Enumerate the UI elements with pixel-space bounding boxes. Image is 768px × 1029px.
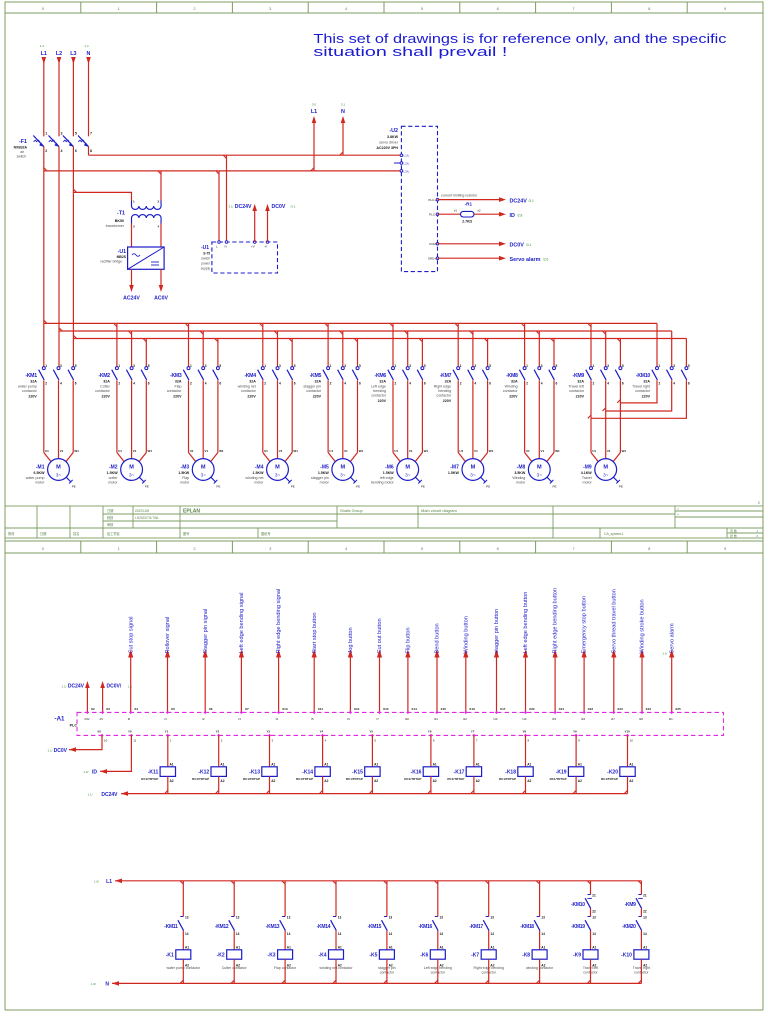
svg-text:PE: PE [216,485,220,489]
page 1 right border [762,13,764,541]
svg-text:U1: U1 [45,449,49,453]
svg-text:DC24V: DC24V [101,792,118,798]
svg-text:32A: 32A [249,380,256,384]
svg-text:14: 14 [236,932,240,936]
motor M8 [528,459,550,481]
bus bar L2 [59,330,672,332]
svg-text:1: 1 [659,364,661,368]
svg-text:contactor: contactor [95,389,111,393]
svg-text:-K9: -K9 [573,953,581,959]
svg-text:3: 3 [673,364,675,368]
svg-text:1: 1 [330,364,332,368]
svg-text:3.8KW: 3.8KW [387,135,399,139]
svg-text:张 数: 张 数 [730,533,737,538]
svg-text:COM: COM [429,242,437,246]
svg-text:W1: W1 [293,449,298,453]
svg-text:3~: 3~ [56,473,62,478]
wire L1 vertical to bus [43,147,45,367]
svg-text:PLC: PLC [70,724,78,728]
svg-text:V1: V1 [541,449,545,453]
svg-text:-KM11: -KM11 [164,924,178,930]
svg-text:-R1: -R1 [465,201,473,206]
svg-text:10: 10 [104,739,108,743]
svg-text:1.5KW: 1.5KW [318,471,330,475]
svg-text:rectifier bridge: rectifier bridge [101,260,123,264]
svg-text:6: 6 [219,382,221,386]
svg-text:Rollover signal: Rollover signal [165,617,171,654]
svg-text:-K20: -K20 [607,769,618,775]
servo driver left pins [400,154,403,157]
svg-text:-K12: -K12 [198,769,209,775]
svg-text:1: 1 [118,364,120,368]
wire transformer secondary to rectifier [131,224,133,248]
wire L1 horizontal to servo driver [44,170,402,172]
branch KM5 coil circuit [386,881,388,917]
svg-text:1.1/: 1.1/ [87,792,92,796]
svg-text:X12: X12 [354,707,360,711]
PLC input Stagger pin signal [204,657,206,712]
page 2 bottom border [5,1009,763,1011]
svg-text:加工项目: 加工项目 [107,531,120,536]
svg-text:MB2S: MB2S [117,255,127,259]
svg-text:-A1: -A1 [55,716,66,723]
wire PSU L drop [218,171,220,242]
svg-text:RC1/TRTGP: RC1/TRTGP [141,777,158,781]
bus bar L3 [73,338,686,340]
wire relay K11 to DC24V rail [167,776,169,793]
svg-text:8: 8 [90,149,92,153]
svg-text:water pump: water pump [18,385,37,389]
svg-text:3~: 3~ [275,473,281,478]
svg-text:Bend button: Bend button [435,623,441,653]
svg-text:220V: 220V [313,394,322,398]
svg-text:-K10: -K10 [621,953,632,959]
svg-text:3~: 3~ [405,473,411,478]
svg-text:I10: I10 [405,717,409,721]
svg-text:X11: X11 [318,707,324,711]
svg-text:Shafa Group: Shafa Group [340,508,363,513]
svg-text:修改: 修改 [8,531,15,536]
svg-text:0V: 0V [100,717,104,721]
svg-text:X25: X25 [675,707,681,711]
svg-text:I15: I15 [552,717,556,721]
svg-text:4: 4 [607,382,609,386]
wire relay K19 to DC24V rail [575,776,577,793]
wire relay K18 to DC24V rail [525,776,527,793]
PLC input Right edge bending signal [278,657,280,712]
PLC input Emergency stop button [583,657,585,712]
svg-text:contactor: contactor [436,394,452,398]
svg-text:1.6/: 1.6/ [83,770,88,774]
svg-text:W1: W1 [74,449,79,453]
svg-text:-K2: -K2 [217,953,225,959]
svg-text:Y6: Y6 [428,730,432,734]
svg-text:motor: motor [108,480,118,484]
svg-text:PE: PE [619,485,623,489]
svg-text:A1: A1 [389,946,393,950]
wire bus drop KM4 pole 1 [262,323,264,366]
svg-text:220V: 220V [247,394,256,398]
svg-text:姓名: 姓名 [73,531,79,536]
svg-text:W1: W1 [424,449,429,453]
svg-text:14: 14 [287,932,291,936]
motor M3 [192,459,214,481]
svg-text:32A: 32A [175,380,182,384]
svg-text:I1: I1 [165,717,168,721]
svg-text:A1: A1 [476,763,480,767]
wire coil KM3 to N rail [284,959,286,983]
svg-text:-K6: -K6 [420,953,428,959]
svg-text:3: 3 [205,364,207,368]
svg-text:Flip button: Flip button [406,627,412,653]
svg-text:L1: L1 [41,51,47,57]
svg-text:6: 6 [688,382,690,386]
wire bus drop KM8 pole 1 [524,323,526,366]
wire relay K17 to DC24V rail [473,776,475,793]
motor M1 [48,459,70,481]
svg-text:4: 4 [673,382,675,386]
svg-text:5: 5 [294,364,296,368]
svg-text:/3.1: /3.1 [526,243,532,247]
svg-text:-M9: -M9 [583,465,592,471]
svg-text:13: 13 [541,916,545,920]
svg-text:I12: I12 [463,717,467,721]
svg-text:10: 10 [630,739,634,743]
svg-text:13: 13 [440,916,444,920]
svg-text:1: 1 [395,364,397,368]
svg-text:3: 3 [133,364,135,368]
svg-text:L1: L1 [311,109,317,115]
svg-text:3: 3 [409,364,411,368]
page 2 left border [4,553,6,1010]
svg-text:6: 6 [148,382,150,386]
svg-text:X7: X7 [245,707,249,711]
svg-text:-K14: -K14 [302,769,313,775]
motor M4 [267,459,289,481]
svg-text:13: 13 [389,916,393,920]
svg-text:5: 5 [622,364,624,368]
svg-text:-K15: -K15 [352,769,363,775]
svg-text:13: 13 [287,916,291,920]
svg-text:A1: A1 [185,946,189,950]
PLC input Start stop button [313,657,315,712]
page 1 frame top column strip [5,2,763,13]
svg-text:L1: L1 [106,879,112,885]
wire relay K13 to DC24V rail [269,776,271,793]
wire relay K14 to DC24V rail [322,776,324,793]
svg-text:servo driver: servo driver [379,141,399,145]
svg-text:motor: motor [320,480,330,484]
svg-text:contactor: contactor [167,389,183,393]
svg-text:motor: motor [254,480,264,484]
wire coil KM2 to N rail [233,959,235,983]
svg-text:-K16: -K16 [411,769,422,775]
svg-text:-K1: -K1 [166,953,174,959]
svg-text:RC1/TRTGP: RC1/TRTGP [550,777,567,781]
svg-text:-KM14: -KM14 [317,924,331,930]
svg-text:22: 22 [592,910,596,914]
svg-text:W1: W1 [219,449,224,453]
svg-text:-T1: -T1 [117,211,125,217]
svg-text:3~: 3~ [470,473,476,478]
svg-text:X14: X14 [411,707,417,711]
svg-text:N: N [105,982,109,988]
svg-text:M: M [405,464,410,470]
svg-text:V1: V1 [204,449,208,453]
relay K18 [524,734,527,737]
N rail [112,982,641,984]
branch KM2 coil circuit [233,881,235,917]
svg-text:-M3: -M3 [181,465,190,471]
svg-text:U1: U1 [118,449,122,453]
svg-text:3: 3 [474,364,476,368]
svg-text:1.4: 1.4 [84,44,89,48]
PLC output ID [130,734,133,737]
svg-text:4: 4 [205,382,207,386]
svg-text:Y10: Y10 [625,730,631,734]
svg-text:U1: U1 [526,449,530,453]
svg-text:PE: PE [421,485,425,489]
svg-text:-KM20: -KM20 [622,924,636,930]
svg-text:2022/12/6: 2022/12/6 [135,509,149,513]
svg-text:32A: 32A [577,380,584,384]
svg-text:N: N [87,51,91,57]
relay K11 [166,734,169,737]
svg-text:U1: U1 [329,449,333,453]
wire bus drop KM7 pole 2 [472,331,474,367]
svg-text:X5: X5 [171,707,175,711]
svg-text:-K7: -K7 [471,953,479,959]
wire bus drop KM5 pole 3 [357,339,359,367]
wire relay K12 to DC24V rail [218,776,220,793]
svg-text:-K13: -K13 [249,769,260,775]
svg-text:X4: X4 [134,707,138,711]
PLC input Jog button [349,657,351,712]
svg-text:-KM13: -KM13 [266,924,280,930]
svg-text:5: 5 [424,364,426,368]
svg-text:I13: I13 [494,717,498,721]
svg-text:Y3: Y3 [267,730,271,734]
svg-text:X17: X17 [500,707,506,711]
wire bus drop KM9 pole 2 [605,331,607,367]
svg-text:water pump: water pump [26,476,45,480]
svg-text:3: 3 [61,132,63,136]
svg-text:Emergency stop button: Emergency stop button [582,596,588,654]
svg-text:-KM10: -KM10 [571,902,585,908]
wire bus drop KM4 pole 3 [291,339,293,367]
svg-text:X15: X15 [441,707,447,711]
svg-text:M: M [56,464,61,470]
wire bus drop KM9 pole 1 [590,323,592,366]
wire coil KM4 to N rail [335,959,337,983]
svg-text:-M7: -M7 [450,465,459,471]
svg-text:A2: A2 [271,779,275,783]
svg-text:4.1KW: 4.1KW [581,471,593,475]
branch KM8 coil circuit [539,881,541,917]
DC24V rail [121,793,628,795]
svg-text:Jog button: Jog button [348,627,354,653]
wire DC0V riser [267,206,269,242]
svg-text:-KM5: -KM5 [310,373,322,379]
svg-text:4: 4 [61,149,63,153]
svg-text:32A: 32A [30,380,37,384]
svg-text:contactor: contactor [306,389,322,393]
svg-text:2: 2 [593,382,595,386]
svg-text:14: 14 [185,932,189,936]
svg-text:M: M [201,464,206,470]
svg-text:1: 1 [190,364,192,368]
svg-text:V1: V1 [60,449,64,453]
svg-text:W1: W1 [489,449,494,453]
wire L3 vertical to bus [72,147,74,367]
svg-text:motor: motor [583,480,593,484]
svg-text:bending motor: bending motor [371,480,395,484]
svg-text:32A: 32A [103,380,110,384]
svg-text:situation shall prevail !: situation shall prevail ! [313,44,507,59]
svg-text:页 数: 页 数 [730,528,737,533]
svg-text:1: 1 [45,132,47,136]
svg-text:I20: I20 [639,717,643,721]
svg-text:32A: 32A [315,380,322,384]
svg-text:220V: 220V [101,394,110,398]
svg-text:-M6: -M6 [385,465,394,471]
wire PSU N drop [226,155,228,242]
svg-text:3~: 3~ [603,473,609,478]
svg-text:U1: U1 [264,449,268,453]
wire KM10 crossover to motor M9 [620,380,657,403]
svg-text:U1: U1 [394,449,398,453]
svg-text:Start stop button: Start stop button [312,612,318,653]
svg-text:2: 2 [45,149,47,153]
svg-text:contactor: contactor [371,394,387,398]
svg-text:1.4: 1.4 [40,44,45,48]
page 1 bottom column strip [5,541,763,553]
svg-text:Left edge: Left edge [371,385,386,389]
wire bus drop KM6 pole 1 [392,323,394,366]
svg-text:N: N [341,109,345,115]
svg-text:L3: L3 [70,51,76,57]
svg-text:-K18: -K18 [505,769,516,775]
branch KM9 coil circuit [590,881,592,895]
svg-text:V1: V1 [409,449,413,453]
wire DC24V signal [438,199,501,201]
svg-text:PE: PE [486,485,490,489]
wire coil KM6 to N rail [437,959,439,983]
svg-text:Flap: Flap [182,476,189,480]
svg-text:current limiting resistor: current limiting resistor [441,193,478,197]
svg-text:3.0: 3.0 [312,103,317,107]
svg-text:1.5KW: 1.5KW [448,471,460,475]
svg-text:N: N [225,245,227,249]
svg-text:220V: 220V [173,394,182,398]
svg-text:motor: motor [35,480,45,484]
wire bus drop KM10 pole 3 [685,339,687,367]
svg-text:-KM12: -KM12 [215,924,229,930]
svg-text:6: 6 [294,382,296,386]
svg-text:RC1/TRTGP: RC1/TRTGP [447,777,464,781]
svg-text:日期: 日期 [107,508,113,513]
svg-text:6: 6 [75,382,77,386]
page 2 right border [762,553,764,1010]
svg-text:I6: I6 [347,717,350,721]
svg-text:contactor: contactor [241,389,257,393]
svg-text:-M4: -M4 [255,465,264,471]
svg-text:3~: 3~ [537,473,543,478]
svg-text:1.0/: 1.0/ [91,982,96,986]
svg-text:-K3: -K3 [268,953,276,959]
svg-text:W1: W1 [622,449,627,453]
svg-text:Y8: Y8 [523,730,527,734]
svg-text:Cut out button: Cut out button [377,618,383,653]
svg-text:L2: L2 [56,51,62,57]
branch KM7 coil circuit [488,881,490,917]
svg-text:Winding button: Winding button [463,616,469,653]
svg-text:contactor: contactor [635,389,651,393]
svg-text:M: M [129,464,134,470]
svg-text:X16: X16 [469,707,475,711]
svg-text:motor: motor [180,480,190,484]
svg-text:A2: A2 [433,779,437,783]
svg-text:contactor: contactor [22,389,38,393]
wire bus drop KM3 pole 2 [202,331,204,367]
svg-text:220V: 220V [443,399,452,403]
svg-text:6: 6 [489,382,491,386]
svg-text:3~: 3~ [129,473,135,478]
svg-text:1.5KW: 1.5KW [383,471,395,475]
svg-text:bending: bending [438,389,451,393]
svg-text:AC220V 3PH: AC220V 3PH [376,146,398,150]
wire bus drop KM10 pole 1 [656,323,658,366]
svg-text:motor: motor [516,480,526,484]
svg-text:DC0V/: DC0V/ [107,684,122,690]
svg-text:I3: I3 [238,717,241,721]
svg-text:S-75: S-75 [203,252,210,256]
svg-text:Right edge bending signal: Right edge bending signal [276,589,282,654]
PLC input Left edge bending button [525,657,527,712]
svg-text:A1: A1 [578,763,582,767]
svg-text:14: 14 [338,932,342,936]
svg-text:-K11: -K11 [148,769,159,775]
svg-text:图纸号: 图纸号 [261,531,271,536]
svg-text:A1: A1 [643,946,647,950]
motor M3 PE ground [211,477,216,482]
svg-text:I17: I17 [611,717,615,721]
svg-text:AC0V: AC0V [154,296,168,302]
svg-text:-M1: -M1 [36,465,45,471]
svg-text:Servo alarm: Servo alarm [669,623,675,653]
svg-text:A1: A1 [440,946,444,950]
svg-text:Winding: Winding [505,385,518,389]
svg-text:DC0V: DC0V [54,748,68,754]
svg-text:1: 1 [526,364,528,368]
svg-text:14: 14 [440,932,444,936]
svg-text:-M5: -M5 [320,465,329,471]
svg-text:5: 5 [688,364,690,368]
svg-text:A1: A1 [629,763,633,767]
relay K16 [429,734,432,737]
wire bus drop KM2 pole 1 [116,323,118,366]
svg-text:Y2: Y2 [216,730,220,734]
svg-text:I0: I0 [128,717,131,721]
svg-text:-V: -V [264,245,267,249]
svg-text:X22: X22 [588,707,594,711]
svg-text:V1: V1 [344,449,348,453]
svg-text:A1: A1 [433,763,437,767]
svg-text:A2: A2 [578,779,582,783]
svg-text:ID: ID [92,770,97,776]
svg-text:-K8: -K8 [522,953,530,959]
svg-text:7: 7 [90,132,92,136]
